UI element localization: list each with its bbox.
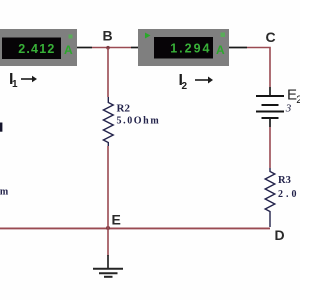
wire: M2 right pin (black) — [229, 47, 247, 49]
wire: node B down to R2 (red) — [107, 48, 109, 97]
wire: R2 down to node E (red) — [107, 146, 109, 228]
svg-text:D: D — [275, 227, 285, 243]
svg-text:A: A — [216, 43, 225, 57]
ammeter M1 (I1 meter) — [0, 29, 77, 66]
battery E2 — [256, 87, 284, 127]
svg-text:R2: R2 — [117, 103, 131, 115]
svg-text:1.0Ohm: 1.0Ohm — [0, 187, 10, 198]
svg-text:2.0: 2.0 — [278, 189, 300, 200]
svg-text:2: 2 — [296, 94, 300, 106]
resistor R3 — [265, 168, 275, 227]
svg-text:3: 3 — [285, 103, 292, 115]
svg-text:B: B — [103, 28, 113, 44]
resistor R2 — [103, 97, 113, 146]
wire: M1 right pin (black) — [77, 47, 92, 49]
svg-text:A: A — [64, 43, 73, 57]
wire: M2 left pin (black) — [131, 47, 138, 49]
junction dot at B — [106, 46, 110, 50]
label E2 — [287, 87, 302, 107]
cut-off label fragment of left branch component — [0, 123, 2, 132]
svg-text:2.412: 2.412 — [18, 42, 55, 56]
svg-text:1.294: 1.294 — [170, 42, 211, 56]
wire: battery to R3 (red) — [269, 127, 271, 168]
wire: M2 to node C corner (red) — [247, 48, 270, 88]
svg-text:5.0Ohm: 5.0Ohm — [117, 116, 161, 127]
wire: node E to ground (red) — [107, 228, 109, 256]
wire: bottom rail D to E to left edge (red) — [0, 227, 270, 229]
svg-text:E: E — [112, 212, 121, 228]
svg-text:2: 2 — [182, 81, 188, 92]
label I1 with arrow — [9, 71, 37, 90]
junction dot at E — [106, 226, 110, 230]
label I2 with arrow — [179, 72, 214, 92]
wire: M1 to node B to M2 (red) — [92, 47, 131, 49]
svg-text:R3: R3 — [278, 175, 291, 186]
ground — [93, 255, 123, 277]
svg-text:1: 1 — [12, 79, 18, 90]
ammeter M2 (I2 meter) — [138, 29, 229, 66]
svg-text:C: C — [266, 29, 276, 45]
